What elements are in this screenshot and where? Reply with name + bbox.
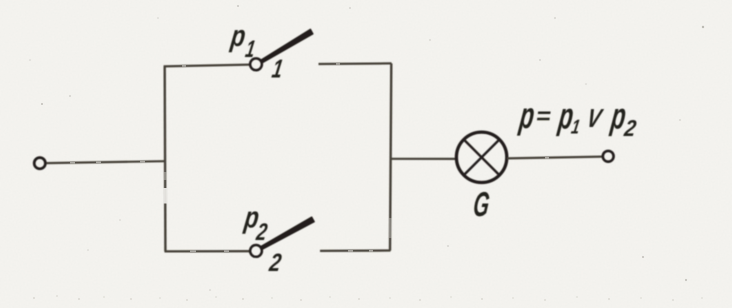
label p1 <box>228 20 257 63</box>
label p2 <box>242 202 270 246</box>
terminal right <box>603 151 614 162</box>
faint dotted baseline of next text row (decorative) <box>33 295 703 301</box>
wire lamp to right terminal <box>507 157 602 159</box>
switch P1 contact circle <box>250 58 262 70</box>
wire box to lamp <box>391 158 457 160</box>
wire left terminal to junction box <box>47 161 166 163</box>
label contact 1 <box>270 54 285 84</box>
wire bottom branch left <box>165 250 251 252</box>
wire top branch right <box>319 62 392 65</box>
label equation p = p1 v p2 <box>517 94 639 141</box>
switch P1 lever <box>261 29 313 63</box>
wire right vertical branch <box>390 63 391 250</box>
wire top branch left <box>164 65 250 67</box>
switch P2 contact circle <box>250 245 262 257</box>
label G <box>471 186 491 224</box>
wire fade patches (decorative scan fading) <box>70 64 549 251</box>
wire left vertical branch <box>163 66 166 251</box>
lamp G circle <box>456 132 506 182</box>
wire fade gap on left vertical (decorative scan fading) <box>165 172 390 238</box>
terminal left <box>34 158 45 169</box>
lamp G cross <box>465 141 499 175</box>
label contact 2 <box>267 249 284 277</box>
wire bottom branch right <box>320 249 391 252</box>
switch P2 lever <box>261 217 315 249</box>
